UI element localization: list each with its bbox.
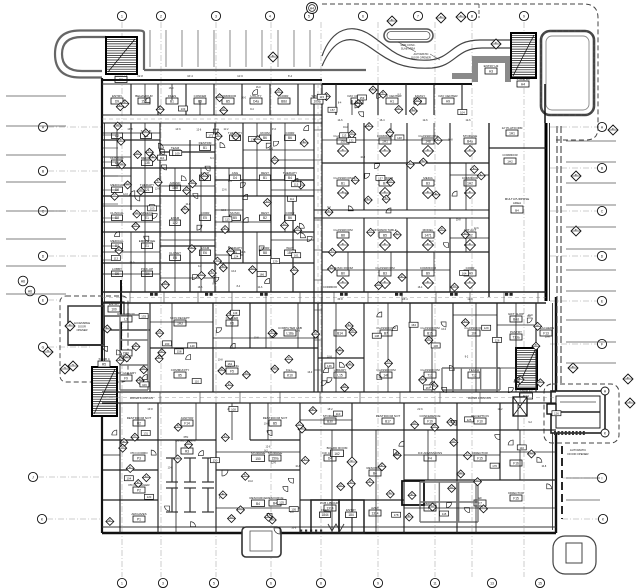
svg-text:10-8: 10-8 bbox=[295, 465, 300, 468]
svg-text:1: 1 bbox=[121, 14, 123, 18]
svg-text:L15: L15 bbox=[337, 373, 343, 377]
svg-text:G: G bbox=[42, 345, 45, 349]
svg-text:129: 129 bbox=[484, 326, 489, 330]
svg-text:B5: B5 bbox=[273, 421, 277, 425]
svg-text:16-6: 16-6 bbox=[198, 286, 203, 289]
svg-text:CORR: CORR bbox=[286, 131, 296, 135]
svg-text:2: 2 bbox=[160, 14, 162, 18]
svg-text:CORRIDOR: CORRIDOR bbox=[420, 266, 437, 270]
svg-text:ANG: ANG bbox=[232, 171, 239, 175]
svg-text:10-8: 10-8 bbox=[218, 359, 223, 362]
svg-text:B14: B14 bbox=[337, 331, 343, 335]
svg-text:16'-4: 16'-4 bbox=[187, 75, 193, 78]
svg-text:STORAGE: STORAGE bbox=[463, 134, 478, 138]
svg-text:108: 108 bbox=[231, 407, 236, 411]
svg-text:JANITOR: JANITOR bbox=[181, 416, 195, 420]
svg-text:126: 126 bbox=[554, 412, 559, 416]
svg-text:F9: F9 bbox=[124, 376, 128, 380]
svg-text:CORRIDOR: CORRIDOR bbox=[462, 176, 479, 180]
svg-text:16-0: 16-0 bbox=[130, 262, 135, 265]
svg-text:AUTOMATIC: AUTOMATIC bbox=[413, 52, 428, 56]
svg-text:BEHAVIOUR: BEHAVIOUR bbox=[135, 94, 153, 98]
svg-text:113: 113 bbox=[114, 256, 119, 260]
svg-text:R5: R5 bbox=[102, 362, 106, 366]
svg-text:TEAM: TEAM bbox=[171, 146, 180, 150]
svg-text:1H1: 1H1 bbox=[509, 131, 515, 135]
svg-text:16-0: 16-0 bbox=[343, 126, 348, 129]
svg-text:B4: B4 bbox=[273, 501, 277, 505]
svg-text:PICK-UP: PICK-UP bbox=[141, 267, 153, 271]
svg-text:13: 13 bbox=[490, 581, 494, 585]
svg-text:CORR: CORR bbox=[261, 246, 271, 250]
svg-text:12-6: 12-6 bbox=[474, 227, 479, 230]
svg-text:F15: F15 bbox=[513, 496, 519, 500]
svg-text:MUSIC ROOM: MUSIC ROOM bbox=[333, 266, 353, 270]
svg-text:16-0: 16-0 bbox=[429, 240, 434, 243]
svg-text:CLINICAL: CLINICAL bbox=[110, 211, 124, 215]
svg-text:113: 113 bbox=[225, 218, 230, 222]
svg-text:ENTRY H3: ENTRY H3 bbox=[484, 64, 499, 68]
svg-text:STAIR 4: STAIR 4 bbox=[98, 357, 109, 361]
svg-text:MEDICAL: MEDICAL bbox=[110, 183, 124, 187]
svg-text:H1: H1 bbox=[390, 99, 394, 103]
svg-text:B3: B3 bbox=[383, 271, 387, 275]
svg-text:125: 125 bbox=[467, 418, 472, 422]
svg-text:B4a: B4a bbox=[467, 139, 473, 143]
svg-text:100: 100 bbox=[111, 307, 117, 311]
svg-text:11'-2: 11'-2 bbox=[223, 128, 229, 131]
svg-text:CLASSROOM: CLASSROOM bbox=[333, 228, 353, 232]
svg-text:A6: A6 bbox=[28, 289, 32, 293]
svg-text:126: 126 bbox=[495, 338, 500, 342]
svg-text:FLEC: FLEC bbox=[321, 508, 330, 512]
svg-text:DIRECTOR: DIRECTOR bbox=[508, 491, 524, 495]
svg-text:B5: B5 bbox=[226, 99, 230, 103]
svg-text:132: 132 bbox=[349, 138, 354, 142]
svg-text:E1: E1 bbox=[145, 244, 149, 248]
svg-text:115: 115 bbox=[294, 183, 299, 187]
svg-text:14-6: 14-6 bbox=[337, 119, 343, 122]
svg-text:H4: H4 bbox=[521, 82, 525, 86]
svg-text:19'-8: 19'-8 bbox=[137, 75, 143, 78]
svg-text:8: 8 bbox=[471, 14, 473, 18]
svg-text:110: 110 bbox=[336, 412, 341, 416]
svg-text:DAY CENTER: DAY CENTER bbox=[438, 94, 458, 98]
svg-text:PIN COORD: PIN COORD bbox=[130, 451, 148, 455]
svg-text:CLASSROOM: CLASSROOM bbox=[420, 326, 440, 330]
svg-text:124: 124 bbox=[234, 255, 239, 259]
svg-text:RESOURCE: RESOURCE bbox=[249, 496, 266, 500]
svg-text:5: 5 bbox=[213, 581, 215, 585]
svg-text:157: 157 bbox=[330, 108, 335, 112]
svg-text:10-8: 10-8 bbox=[528, 314, 533, 317]
svg-text:B8: B8 bbox=[341, 233, 345, 237]
svg-text:CONFERENCE: CONFERENCE bbox=[419, 414, 440, 418]
svg-text:RESTROOM NOT: RESTROOM NOT bbox=[127, 416, 152, 420]
svg-text:110: 110 bbox=[194, 379, 199, 383]
svg-text:110: 110 bbox=[160, 156, 165, 160]
svg-text:14'-6: 14'-6 bbox=[175, 128, 181, 131]
svg-text:STORAGE: STORAGE bbox=[251, 451, 266, 455]
svg-text:16-0: 16-0 bbox=[169, 87, 174, 90]
svg-text:SLAB AREA: SLAB AREA bbox=[401, 46, 416, 50]
svg-text:THERAPY: THERAPY bbox=[140, 183, 154, 187]
svg-text:171: 171 bbox=[208, 133, 213, 137]
svg-text:1314: 1314 bbox=[371, 511, 378, 515]
svg-text:12-6: 12-6 bbox=[196, 129, 201, 132]
svg-text:150: 150 bbox=[255, 457, 261, 461]
svg-text:MUSIC: MUSIC bbox=[230, 211, 241, 215]
svg-text:CORRIDOR: CORRIDOR bbox=[323, 285, 337, 289]
svg-text:D9: D9 bbox=[115, 99, 119, 103]
svg-text:106: 106 bbox=[142, 383, 147, 387]
svg-text:STAIR F2: STAIR F2 bbox=[115, 72, 128, 76]
svg-text:158: 158 bbox=[177, 350, 182, 354]
svg-text:16-0: 16-0 bbox=[221, 209, 226, 212]
svg-text:131: 131 bbox=[143, 431, 148, 435]
svg-text:176: 176 bbox=[492, 464, 497, 468]
svg-text:28'-4: 28'-4 bbox=[402, 298, 408, 301]
svg-text:P2: P2 bbox=[137, 488, 141, 492]
svg-text:1: 1 bbox=[121, 581, 123, 585]
svg-text:12-6: 12-6 bbox=[465, 119, 471, 122]
svg-text:111: 111 bbox=[290, 197, 295, 201]
svg-text:CLASSROOM: CLASSROOM bbox=[418, 134, 438, 138]
svg-text:DOOR: DOOR bbox=[78, 325, 86, 329]
svg-text:B17: B17 bbox=[385, 419, 391, 423]
svg-text:12-6: 12-6 bbox=[422, 119, 428, 122]
svg-text:B4: B4 bbox=[373, 471, 377, 475]
svg-text:1844: 1844 bbox=[321, 513, 328, 517]
svg-text:B6: B6 bbox=[263, 136, 267, 140]
svg-text:10-8: 10-8 bbox=[448, 139, 453, 142]
svg-text:12-6: 12-6 bbox=[222, 188, 227, 191]
svg-text:PUB LIBRARY: PUB LIBRARY bbox=[320, 501, 340, 505]
svg-text:7: 7 bbox=[417, 14, 419, 18]
svg-text:5: 5 bbox=[308, 14, 310, 18]
svg-text:CLASSROOM: CLASSROOM bbox=[333, 176, 353, 180]
svg-text:CORRIDOR: CORRIDOR bbox=[502, 153, 517, 157]
svg-text:150a: 150a bbox=[271, 456, 278, 460]
svg-text:146: 146 bbox=[327, 364, 332, 368]
svg-text:6: 6 bbox=[362, 14, 364, 18]
svg-text:16-0: 16-0 bbox=[241, 97, 246, 100]
svg-text:104: 104 bbox=[460, 110, 465, 114]
svg-text:137: 137 bbox=[378, 176, 383, 180]
svg-text:CLASSROOM: CLASSROOM bbox=[376, 368, 396, 372]
svg-text:10-8: 10-8 bbox=[456, 219, 461, 222]
svg-text:DOOR OPENER: DOOR OPENER bbox=[411, 55, 431, 59]
svg-text:129: 129 bbox=[273, 259, 278, 263]
svg-text:L18a: L18a bbox=[286, 331, 293, 335]
svg-text:10-8: 10-8 bbox=[254, 337, 259, 340]
svg-text:F10: F10 bbox=[477, 419, 483, 423]
svg-text:161: 161 bbox=[294, 254, 299, 258]
svg-text:R3: R3 bbox=[185, 449, 189, 453]
svg-text:120: 120 bbox=[147, 495, 152, 499]
svg-text:MEDICAL: MEDICAL bbox=[110, 239, 124, 243]
svg-text:6: 6 bbox=[270, 581, 272, 585]
svg-text:A4: A4 bbox=[310, 6, 314, 10]
svg-text:LOBBY: LOBBY bbox=[112, 267, 122, 271]
svg-text:10-8: 10-8 bbox=[291, 527, 296, 530]
svg-text:OPENER: OPENER bbox=[77, 328, 88, 332]
svg-text:CORR: CORR bbox=[286, 211, 296, 215]
svg-text:EXAM: EXAM bbox=[201, 246, 210, 250]
svg-text:18'-2: 18'-2 bbox=[327, 408, 333, 411]
svg-text:CLASSROOM: CLASSROOM bbox=[375, 266, 395, 270]
svg-text:ENTRY: ENTRY bbox=[112, 94, 122, 98]
svg-text:LIBRARY: LIBRARY bbox=[334, 368, 347, 372]
svg-text:184: 184 bbox=[348, 513, 354, 517]
svg-text:NON RECEPT: NON RECEPT bbox=[170, 316, 190, 320]
svg-text:CORR: CORR bbox=[201, 211, 211, 215]
svg-text:ROOM: ROOM bbox=[260, 131, 270, 135]
svg-text:REST: REST bbox=[261, 171, 269, 175]
svg-text:B8: B8 bbox=[263, 251, 267, 255]
svg-text:103: 103 bbox=[150, 207, 155, 211]
svg-text:CLASSROOM: CLASSROOM bbox=[464, 326, 484, 330]
svg-text:16'-8: 16'-8 bbox=[127, 128, 133, 131]
svg-text:ONWARD TABLE: ONWARD TABLE bbox=[373, 228, 397, 232]
svg-text:113: 113 bbox=[342, 134, 347, 138]
svg-text:B9: B9 bbox=[426, 271, 430, 275]
svg-text:B1: B1 bbox=[341, 181, 345, 185]
svg-text:104: 104 bbox=[126, 477, 131, 481]
svg-text:12'-6: 12'-6 bbox=[467, 298, 473, 301]
svg-text:ARCHIVES: ARCHIVES bbox=[131, 512, 146, 516]
svg-text:K10: K10 bbox=[287, 373, 293, 377]
svg-text:166: 166 bbox=[259, 272, 264, 276]
svg-text:DIRECTOR: DIRECTOR bbox=[472, 451, 488, 455]
svg-text:B5: B5 bbox=[233, 216, 237, 220]
svg-text:P1: P1 bbox=[137, 517, 141, 521]
svg-text:B6: B6 bbox=[288, 136, 292, 140]
svg-text:D4a: D4a bbox=[253, 99, 259, 103]
svg-text:WATER FOUNTAIN: WATER FOUNTAIN bbox=[130, 396, 153, 400]
svg-text:AREA: AREA bbox=[513, 201, 521, 205]
svg-text:16-0: 16-0 bbox=[231, 270, 236, 273]
svg-text:11: 11 bbox=[433, 581, 437, 585]
svg-text:B4: B4 bbox=[256, 502, 260, 506]
svg-text:15: 15 bbox=[538, 581, 542, 585]
svg-text:I: I bbox=[602, 476, 603, 480]
svg-text:153: 153 bbox=[360, 96, 365, 100]
svg-text:DOOR OPENER: DOOR OPENER bbox=[568, 452, 589, 456]
svg-text:B8d: B8d bbox=[281, 99, 287, 103]
svg-text:MODEL: MODEL bbox=[423, 228, 434, 232]
svg-text:16-0: 16-0 bbox=[256, 86, 261, 89]
svg-text:B5: B5 bbox=[383, 233, 387, 237]
svg-text:16'-8: 16'-8 bbox=[147, 408, 153, 411]
svg-text:F7: F7 bbox=[478, 501, 482, 505]
svg-text:12-6: 12-6 bbox=[155, 187, 160, 190]
svg-text:16-4: 16-4 bbox=[418, 286, 423, 289]
svg-text:L3: L3 bbox=[124, 317, 128, 321]
svg-text:E6: E6 bbox=[203, 251, 207, 255]
svg-text:B0: B0 bbox=[341, 271, 345, 275]
svg-text:CLASSROOM: CLASSROOM bbox=[420, 368, 440, 372]
svg-text:B2: B2 bbox=[263, 216, 267, 220]
svg-text:F19: F19 bbox=[427, 419, 433, 423]
svg-text:B6: B6 bbox=[288, 216, 292, 220]
svg-text:160: 160 bbox=[165, 342, 170, 346]
svg-text:109: 109 bbox=[175, 151, 180, 155]
svg-text:12-6: 12-6 bbox=[271, 462, 276, 465]
svg-text:B4: B4 bbox=[515, 209, 519, 213]
svg-text:ENTRY: ENTRY bbox=[346, 508, 356, 512]
svg-text:12-6: 12-6 bbox=[265, 446, 270, 449]
svg-text:AZET: AZET bbox=[371, 506, 379, 510]
svg-text:85: 85 bbox=[178, 373, 182, 377]
svg-text:D4: D4 bbox=[233, 176, 237, 180]
svg-text:9'-6: 9'-6 bbox=[272, 128, 277, 131]
svg-text:BOARD ROOM: BOARD ROOM bbox=[327, 446, 348, 450]
svg-text:10-8: 10-8 bbox=[168, 466, 173, 469]
svg-text:3: 3 bbox=[162, 581, 164, 585]
svg-text:125: 125 bbox=[279, 500, 284, 504]
svg-text:10-8: 10-8 bbox=[360, 156, 365, 159]
svg-text:12' PLATFORM: 12' PLATFORM bbox=[502, 126, 523, 130]
svg-text:STAIR H3: STAIR H3 bbox=[516, 77, 530, 81]
svg-text:F.E.L.: F.E.L. bbox=[286, 368, 294, 372]
svg-text:21'-6: 21'-6 bbox=[417, 408, 423, 411]
svg-text:162: 162 bbox=[334, 452, 340, 456]
svg-text:12-6: 12-6 bbox=[123, 193, 128, 196]
svg-text:B4: B4 bbox=[288, 176, 292, 180]
svg-text:16-0: 16-0 bbox=[441, 328, 446, 331]
svg-text:109a: 109a bbox=[313, 99, 320, 103]
svg-text:B1: B1 bbox=[263, 176, 267, 180]
svg-text:MEDIA: MEDIA bbox=[423, 176, 433, 180]
svg-text:COMMUNITY: COMMUNITY bbox=[171, 368, 190, 372]
svg-text:WATER FOUNTAIN: WATER FOUNTAIN bbox=[468, 396, 491, 400]
svg-text:F16: F16 bbox=[513, 461, 519, 465]
svg-text:10-8: 10-8 bbox=[241, 251, 246, 254]
svg-text:F15: F15 bbox=[477, 456, 483, 460]
svg-text:178: 178 bbox=[394, 513, 399, 517]
svg-text:16-0: 16-0 bbox=[307, 371, 312, 374]
svg-text:E5: E5 bbox=[203, 216, 207, 220]
svg-text:10-8: 10-8 bbox=[541, 465, 546, 468]
svg-text:164: 164 bbox=[462, 271, 467, 275]
svg-text:F4: F4 bbox=[428, 456, 432, 460]
svg-text:J: J bbox=[32, 475, 34, 479]
svg-text:3: 3 bbox=[215, 14, 217, 18]
svg-text:B1: B1 bbox=[203, 146, 207, 150]
svg-text:RESTROOM NOT: RESTROOM NOT bbox=[376, 414, 401, 418]
svg-text:F5: F5 bbox=[230, 369, 234, 373]
svg-text:110: 110 bbox=[520, 446, 525, 450]
svg-text:ICF ADMISSIONS: ICF ADMISSIONS bbox=[418, 451, 442, 455]
svg-text:P3: P3 bbox=[137, 456, 141, 460]
svg-text:STORAGE: STORAGE bbox=[268, 451, 283, 455]
svg-text:16-4: 16-4 bbox=[379, 119, 385, 122]
svg-text:133: 133 bbox=[181, 107, 186, 111]
svg-text:DEVELOPMENT: DEVELOPMENT bbox=[175, 439, 196, 443]
svg-text:ART GALLERY: ART GALLERY bbox=[116, 371, 137, 375]
svg-text:136: 136 bbox=[433, 344, 438, 348]
svg-text:F14: F14 bbox=[184, 421, 190, 425]
svg-text:14-6: 14-6 bbox=[258, 286, 263, 289]
svg-text:10-8: 10-8 bbox=[185, 203, 190, 206]
svg-text:1471: 1471 bbox=[424, 233, 431, 237]
svg-text:ACCESSIBLE: ACCESSIBLE bbox=[74, 321, 91, 325]
svg-text:A6: A6 bbox=[21, 279, 25, 283]
svg-text:10-8: 10-8 bbox=[264, 423, 269, 426]
svg-text:16-0: 16-0 bbox=[248, 480, 253, 483]
svg-text:140: 140 bbox=[190, 344, 195, 348]
svg-text:CORR: CORR bbox=[466, 266, 476, 270]
svg-text:133: 133 bbox=[141, 314, 146, 318]
svg-text:138: 138 bbox=[374, 334, 379, 338]
svg-text:148: 148 bbox=[397, 136, 402, 140]
svg-text:11'-2: 11'-2 bbox=[497, 408, 503, 411]
svg-text:36'-8: 36'-8 bbox=[337, 298, 343, 301]
svg-text:CONFER: CONFER bbox=[194, 94, 208, 98]
svg-text:162: 162 bbox=[227, 362, 232, 366]
svg-text:9: 9 bbox=[377, 581, 379, 585]
svg-text:115: 115 bbox=[442, 512, 447, 516]
svg-text:SPEECH: SPEECH bbox=[141, 211, 153, 215]
svg-text:E1: E1 bbox=[145, 216, 149, 220]
svg-text:1H2: 1H2 bbox=[467, 181, 473, 185]
svg-text:H3: H3 bbox=[489, 69, 493, 73]
svg-text:10-8: 10-8 bbox=[327, 356, 332, 359]
svg-text:10-8: 10-8 bbox=[545, 336, 550, 339]
svg-text:8: 8 bbox=[320, 581, 322, 585]
svg-text:9: 9 bbox=[523, 14, 525, 18]
svg-text:B3: B3 bbox=[426, 181, 430, 185]
svg-text:12'-6: 12'-6 bbox=[237, 75, 243, 78]
svg-text:H9: H9 bbox=[446, 99, 450, 103]
svg-text:REST: REST bbox=[261, 211, 269, 215]
svg-text:12-6: 12-6 bbox=[295, 330, 300, 333]
svg-text:1H2: 1H2 bbox=[507, 160, 513, 164]
svg-text:16-0: 16-0 bbox=[268, 148, 273, 151]
svg-text:WAIT: WAIT bbox=[286, 246, 294, 250]
svg-text:AMEND: AMEND bbox=[170, 181, 182, 185]
svg-text:B7: B7 bbox=[384, 331, 388, 335]
svg-text:8'-4: 8'-4 bbox=[288, 75, 293, 78]
svg-text:4: 4 bbox=[269, 14, 271, 18]
svg-text:FAMILY: FAMILY bbox=[415, 94, 425, 98]
svg-text:F: F bbox=[601, 342, 603, 346]
svg-text:130: 130 bbox=[213, 459, 218, 463]
svg-text:115: 115 bbox=[320, 95, 325, 99]
svg-text:REM CONC.: REM CONC. bbox=[401, 43, 416, 47]
svg-text:164: 164 bbox=[411, 323, 416, 327]
svg-text:RESTRM: RESTRM bbox=[199, 141, 212, 145]
svg-text:RESTROOM NOT: RESTROOM NOT bbox=[263, 416, 288, 420]
svg-text:119: 119 bbox=[233, 311, 238, 315]
